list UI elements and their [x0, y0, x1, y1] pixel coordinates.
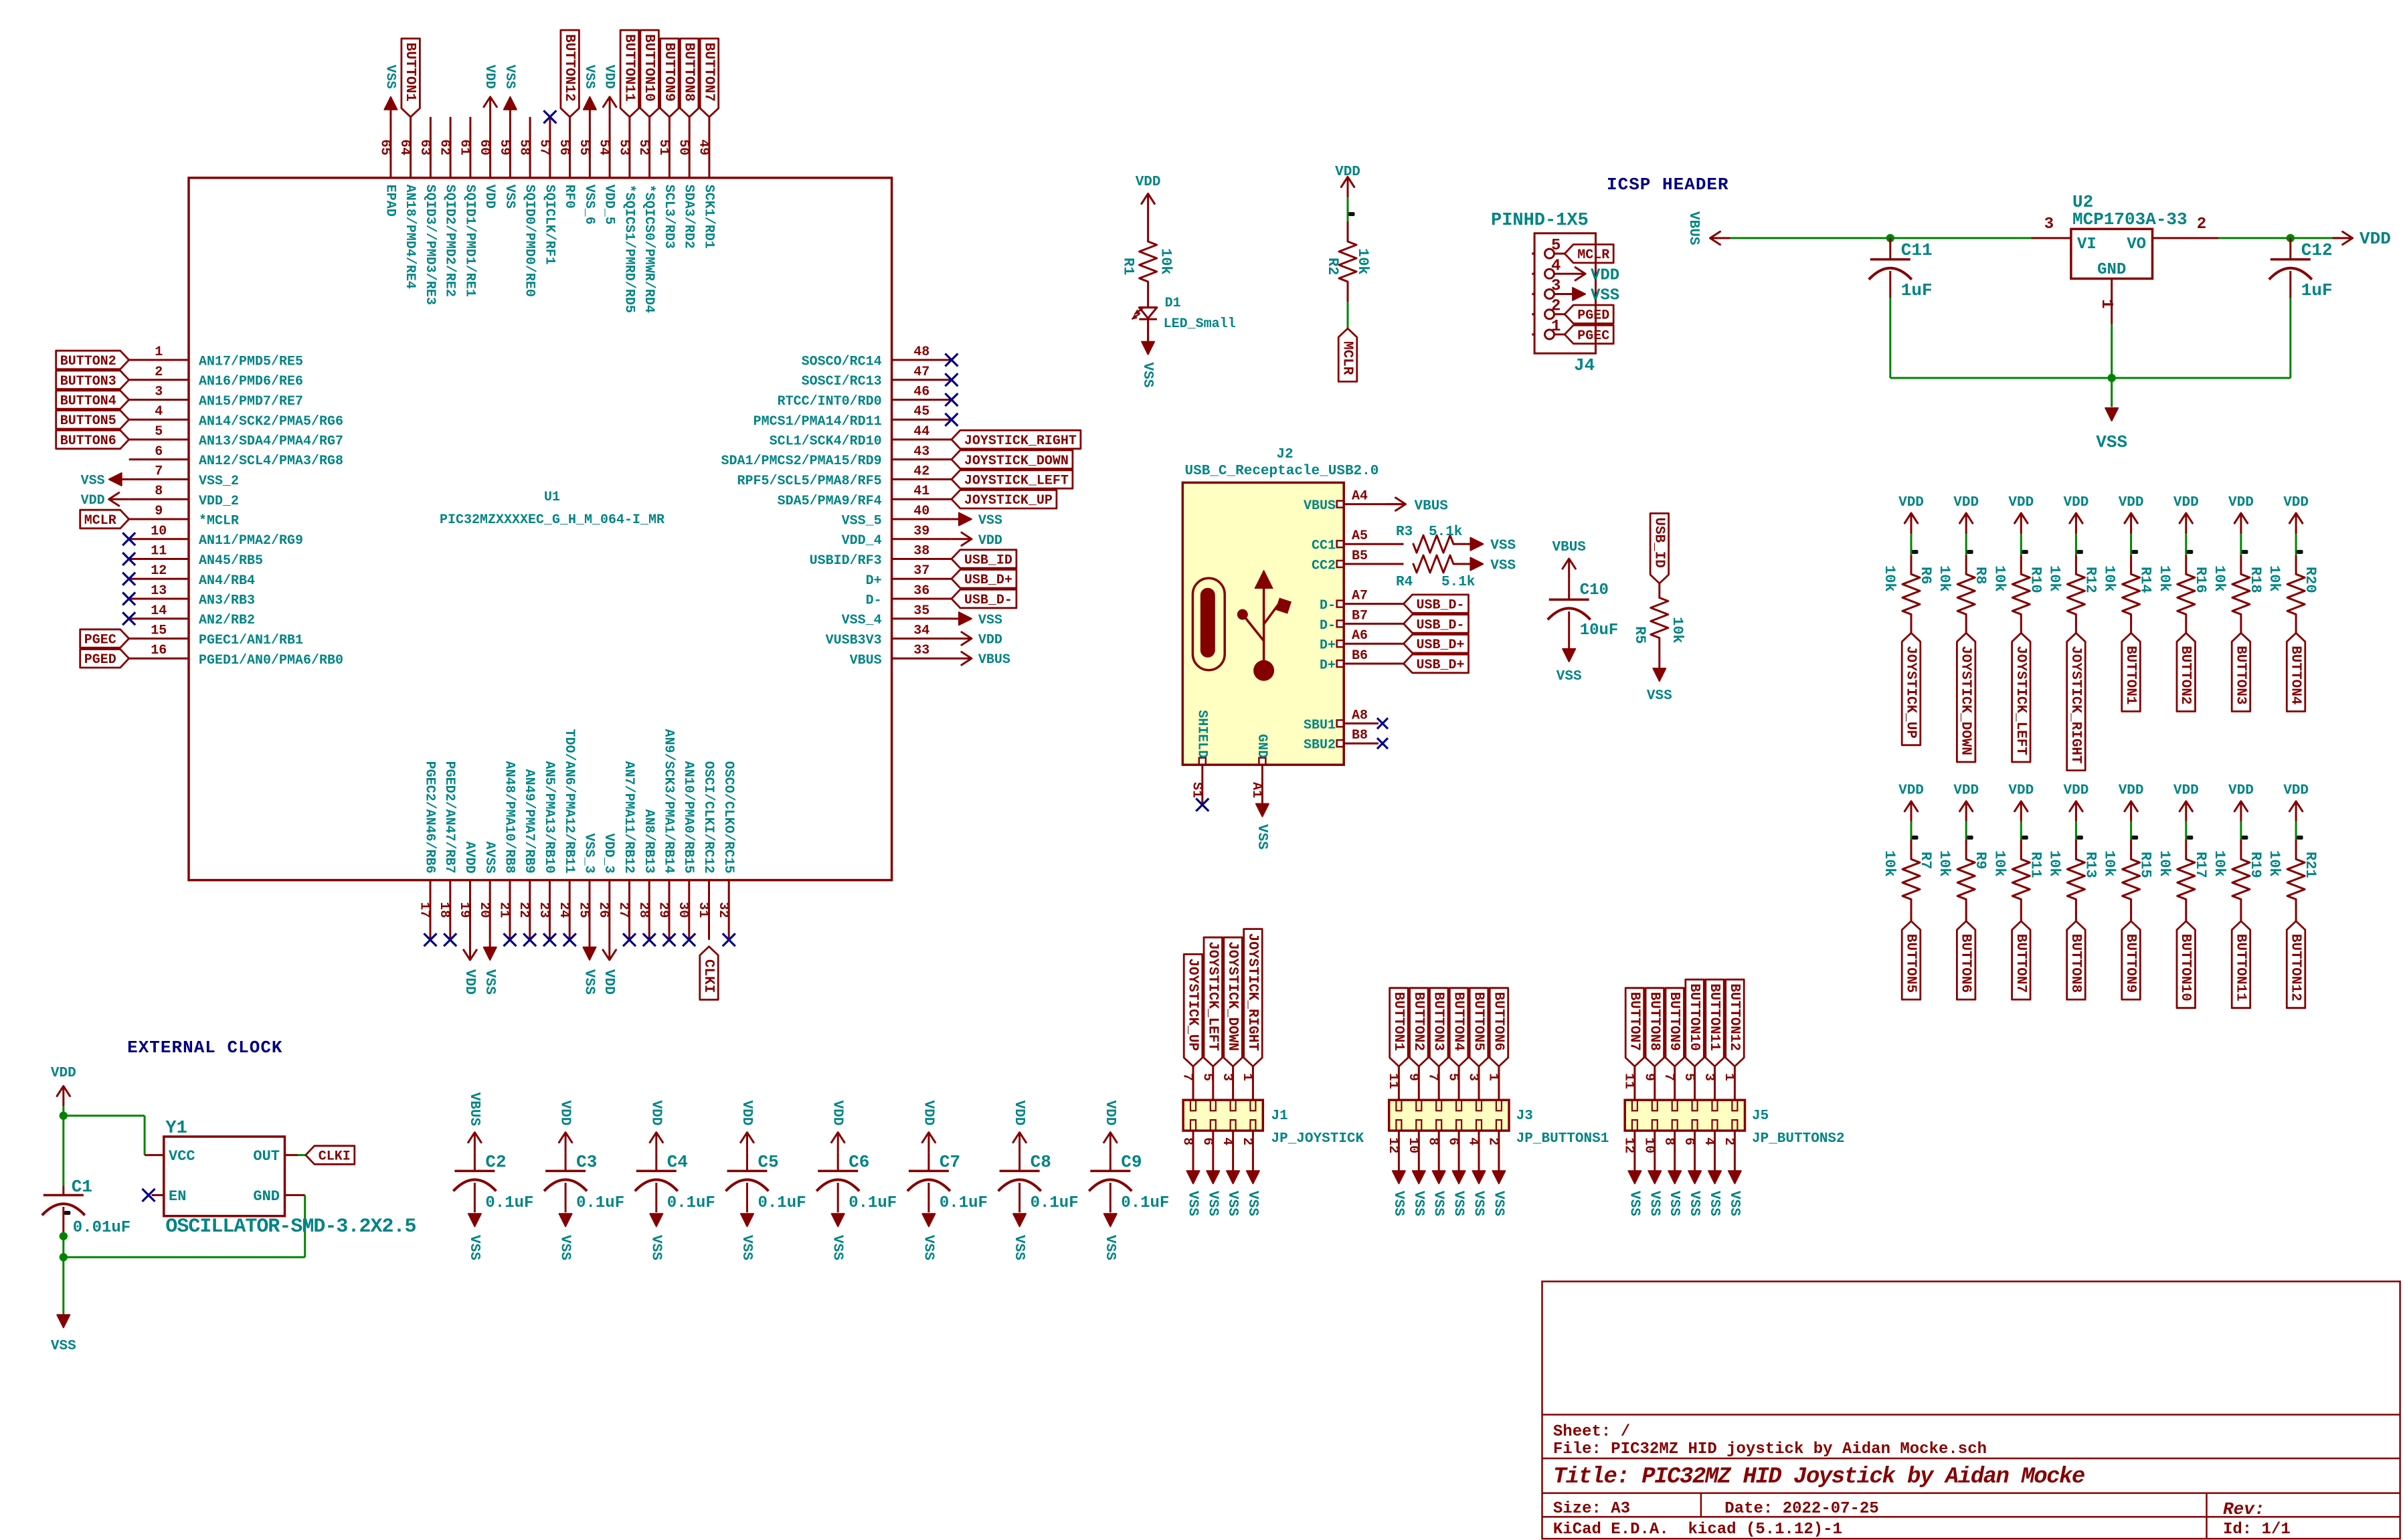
svg-text:VSS: VSS: [978, 513, 1002, 528]
svg-text:VSS: VSS: [1490, 539, 1516, 554]
svg-text:VDD: VDD: [2228, 495, 2254, 510]
svg-text:36: 36: [913, 583, 929, 599]
svg-text:SCL1/SCK4/RD10: SCL1/SCK4/RD10: [770, 434, 882, 450]
svg-text:USB_D+: USB_D+: [964, 573, 1012, 588]
svg-text:JP_JOYSTICK: JP_JOYSTICK: [1271, 1131, 1364, 1147]
svg-text:D-: D-: [866, 593, 882, 609]
svg-text:10k: 10k: [2266, 850, 2283, 877]
svg-text:13: 13: [151, 583, 167, 599]
svg-text:8: 8: [155, 484, 163, 499]
svg-text:PINHD-1X5: PINHD-1X5: [1491, 211, 1589, 231]
svg-text:SQID2/PMD2/RE2: SQID2/PMD2/RE2: [442, 185, 458, 297]
svg-text:USB_D-: USB_D-: [1417, 617, 1465, 633]
svg-text:File: PIC32MZ HID joystick by: File: PIC32MZ HID joystick by Aidan Mock…: [1553, 1440, 1987, 1458]
svg-text:55: 55: [576, 139, 592, 155]
svg-text:22: 22: [516, 902, 531, 918]
svg-text:48: 48: [913, 345, 929, 360]
svg-text:BUTTON5: BUTTON5: [60, 413, 116, 429]
svg-text:VDD: VDD: [1102, 1100, 1118, 1126]
svg-text:BUTTON4: BUTTON4: [1451, 992, 1466, 1051]
svg-text:VSS: VSS: [1102, 1235, 1118, 1260]
svg-text:VDD: VDD: [920, 1100, 936, 1126]
svg-text:BUTTON12: BUTTON12: [561, 34, 577, 102]
svg-text:S1: S1: [1188, 782, 1204, 798]
svg-text:VSS: VSS: [1646, 1191, 1662, 1216]
svg-text:USB_D+: USB_D+: [1417, 658, 1465, 673]
svg-text:8: 8: [1425, 1137, 1441, 1145]
svg-text:35: 35: [913, 603, 929, 619]
svg-text:VDD: VDD: [2008, 495, 2034, 510]
svg-text:D1: D1: [1165, 296, 1181, 311]
svg-text:56: 56: [556, 139, 571, 155]
svg-text:BUTTON4: BUTTON4: [2288, 646, 2303, 704]
svg-text:0.1uF: 0.1uF: [667, 1194, 715, 1212]
svg-text:46: 46: [913, 385, 929, 400]
svg-text:2: 2: [1721, 1137, 1737, 1145]
svg-text:C8: C8: [1031, 1152, 1051, 1172]
svg-text:VDD: VDD: [1011, 1100, 1027, 1126]
svg-text:BUTTON8: BUTTON8: [681, 43, 697, 102]
svg-text:SOSCO/RC14: SOSCO/RC14: [802, 355, 882, 370]
svg-text:0.1uF: 0.1uF: [940, 1194, 988, 1212]
svg-text:GND: GND: [2097, 261, 2126, 279]
svg-text:0.1uF: 0.1uF: [1121, 1194, 1169, 1212]
svg-text:SBU1: SBU1: [1304, 718, 1336, 733]
svg-text:37: 37: [913, 563, 929, 579]
svg-text:10k: 10k: [2156, 565, 2173, 592]
svg-text:Title: PIC32MZ HID Joystick by: Title: PIC32MZ HID Joystick by Aidan Moc…: [1553, 1464, 2084, 1490]
svg-text:R5: R5: [1631, 626, 1648, 644]
svg-text:AN48/PMA10/RB8: AN48/PMA10/RB8: [502, 761, 517, 874]
svg-text:VDD: VDD: [2173, 495, 2199, 510]
svg-text:D-: D-: [1320, 618, 1336, 634]
svg-text:BUTTON11: BUTTON11: [2232, 934, 2248, 1001]
svg-text:VDD_2: VDD_2: [199, 494, 239, 509]
svg-text:9: 9: [1641, 1073, 1656, 1081]
svg-text:0.1uF: 0.1uF: [758, 1194, 806, 1212]
svg-text:C6: C6: [849, 1152, 869, 1172]
svg-text:AN12/SCL4/PMA3/RG8: AN12/SCL4/PMA3/RG8: [199, 454, 343, 469]
svg-text:R9: R9: [1972, 852, 1989, 869]
svg-text:VDD: VDD: [2283, 495, 2309, 510]
svg-text:BUTTON1: BUTTON1: [1391, 992, 1406, 1051]
svg-text:VSS: VSS: [1490, 1191, 1506, 1216]
svg-text:USB_D-: USB_D-: [964, 593, 1012, 608]
svg-text:20: 20: [476, 902, 492, 918]
svg-text:23: 23: [536, 902, 551, 918]
svg-text:AN17/PMD5/RE5: AN17/PMD5/RE5: [199, 355, 303, 370]
svg-text:R1: R1: [1120, 258, 1137, 275]
svg-text:VSS: VSS: [482, 969, 497, 995]
svg-text:VSS: VSS: [978, 613, 1002, 628]
svg-text:10k: 10k: [2211, 565, 2228, 592]
svg-text:VI: VI: [2077, 235, 2097, 254]
svg-text:VSS: VSS: [1451, 1191, 1466, 1216]
svg-text:0.1uF: 0.1uF: [485, 1194, 533, 1212]
svg-text:VSS: VSS: [648, 1235, 663, 1260]
svg-text:61: 61: [456, 139, 472, 155]
svg-text:B6: B6: [1352, 648, 1368, 664]
svg-text:R16: R16: [2192, 567, 2209, 593]
svg-text:J4: J4: [1574, 355, 1595, 375]
svg-text:VBUS: VBUS: [1304, 498, 1336, 514]
svg-text:AN16/PMD6/RE6: AN16/PMD6/RE6: [199, 374, 303, 389]
svg-text:SOSCI/RC13: SOSCI/RC13: [802, 374, 882, 389]
svg-text:PMCS1/PMA14/RD11: PMCS1/PMA14/RD11: [753, 414, 882, 429]
svg-text:D+: D+: [866, 573, 882, 589]
svg-text:9: 9: [155, 504, 163, 519]
svg-text:SQID3//PMD3/RE3: SQID3//PMD3/RE3: [422, 185, 438, 305]
svg-text:10k: 10k: [2156, 850, 2173, 877]
svg-text:C5: C5: [758, 1152, 779, 1172]
svg-text:VDD_4: VDD_4: [842, 533, 882, 549]
svg-text:R15: R15: [2137, 852, 2154, 878]
svg-text:24: 24: [556, 902, 571, 918]
svg-text:VSS: VSS: [582, 969, 597, 995]
svg-text:4: 4: [1465, 1137, 1481, 1145]
svg-text:VSS: VSS: [1686, 1191, 1702, 1216]
svg-text:TDO/AN6/PMA12/RB11: TDO/AN6/PMA12/RB11: [561, 729, 577, 874]
svg-text:C12: C12: [2301, 240, 2333, 260]
svg-text:10k: 10k: [1158, 248, 1174, 275]
svg-text:VBUS: VBUS: [978, 652, 1010, 668]
svg-text:*SQICS1/PMRD/RD5: *SQICS1/PMRD/RD5: [621, 185, 636, 313]
svg-text:0.01uF: 0.01uF: [73, 1219, 130, 1237]
svg-text:BUTTON11: BUTTON11: [621, 34, 636, 102]
svg-text:BUTTON6: BUTTON6: [60, 434, 116, 449]
svg-text:VUSB3V3: VUSB3V3: [826, 633, 882, 648]
svg-text:JOYSTICK_RIGHT: JOYSTICK_RIGHT: [2068, 646, 2083, 763]
svg-text:LED_Small: LED_Small: [1164, 316, 1236, 332]
svg-text:AN5/PMA13/RB10: AN5/PMA13/RB10: [541, 761, 557, 874]
svg-text:AN13/SDA4/PMA4/RG7: AN13/SDA4/PMA4/RG7: [199, 434, 343, 450]
svg-text:C4: C4: [667, 1152, 688, 1172]
svg-text:JOYSTICK_UP: JOYSTICK_UP: [1903, 646, 1919, 739]
svg-text:C3: C3: [576, 1152, 597, 1172]
svg-text:ICSP HEADER: ICSP HEADER: [1607, 175, 1729, 195]
svg-text:VDD: VDD: [1898, 783, 1924, 799]
svg-text:10k: 10k: [2266, 565, 2283, 592]
svg-text:10: 10: [1405, 1137, 1421, 1153]
svg-text:10: 10: [1641, 1137, 1656, 1153]
svg-text:BUTTON11: BUTTON11: [1706, 983, 1722, 1051]
svg-text:12: 12: [1621, 1137, 1636, 1153]
svg-text:JOYSTICK_RIGHT: JOYSTICK_RIGHT: [964, 434, 1077, 449]
svg-text:MCLR: MCLR: [1577, 248, 1609, 263]
svg-text:PGEC1/AN1/RB1: PGEC1/AN1/RB1: [199, 633, 303, 648]
svg-text:Sheet: /: Sheet: /: [1553, 1423, 1630, 1441]
svg-text:VDD: VDD: [2360, 229, 2391, 249]
svg-text:10k: 10k: [2101, 565, 2118, 592]
svg-text:32: 32: [715, 902, 731, 918]
svg-text:VDD: VDD: [830, 1100, 845, 1126]
svg-text:3: 3: [1551, 278, 1561, 296]
svg-text:10k: 10k: [2101, 850, 2118, 877]
svg-text:D-: D-: [1320, 598, 1336, 613]
svg-text:AVDD: AVDD: [462, 842, 477, 874]
svg-text:MCLR: MCLR: [84, 513, 116, 528]
svg-text:5: 5: [155, 424, 163, 440]
svg-text:SQID1/PMD1/RE1: SQID1/PMD1/RE1: [462, 185, 477, 297]
svg-text:4: 4: [1701, 1137, 1716, 1145]
svg-text:MCLR: MCLR: [1340, 341, 1355, 375]
svg-text:47: 47: [913, 365, 929, 380]
svg-text:BUTTON6: BUTTON6: [1958, 934, 1973, 993]
svg-text:VSS: VSS: [1556, 669, 1582, 684]
svg-text:EXTERNAL CLOCK: EXTERNAL CLOCK: [127, 1038, 282, 1058]
svg-text:VDD: VDD: [602, 65, 617, 89]
svg-text:AN18/PMD4/RE4: AN18/PMD4/RE4: [402, 185, 418, 289]
svg-text:5: 5: [1199, 1073, 1215, 1081]
svg-text:EN: EN: [169, 1188, 186, 1205]
svg-text:10k: 10k: [1936, 850, 1953, 877]
svg-text:OSCO/CLKO/RC15: OSCO/CLKO/RC15: [721, 761, 736, 874]
svg-text:4: 4: [1551, 257, 1561, 275]
svg-text:R18: R18: [2247, 567, 2264, 593]
svg-text:R13: R13: [2082, 852, 2099, 878]
svg-text:OSCI/CLKI/RC12: OSCI/CLKI/RC12: [701, 761, 716, 874]
svg-text:SQICLK/RF1: SQICLK/RF1: [541, 185, 557, 265]
svg-text:BUTTON7: BUTTON7: [2013, 934, 2028, 993]
svg-text:BUTTON2: BUTTON2: [60, 354, 116, 369]
svg-text:BUTTON4: BUTTON4: [60, 394, 116, 409]
svg-text:VSS: VSS: [1647, 688, 1672, 704]
svg-text:7: 7: [1661, 1073, 1676, 1081]
svg-text:VSS: VSS: [382, 65, 397, 89]
svg-text:SCL3/RD3: SCL3/RD3: [661, 185, 677, 249]
svg-text:VSS_4: VSS_4: [842, 613, 882, 628]
svg-text:VSS: VSS: [1411, 1191, 1426, 1216]
svg-text:SDA1/PMCS2/PMA15/RD9: SDA1/PMCS2/PMA15/RD9: [721, 454, 882, 469]
svg-text:BUTTON10: BUTTON10: [1686, 983, 1702, 1051]
svg-text:BUTTON7: BUTTON7: [1626, 992, 1641, 1051]
svg-text:AN49/PMA7/RB9: AN49/PMA7/RB9: [521, 769, 537, 874]
svg-text:VSS: VSS: [1591, 287, 1619, 305]
svg-text:JOYSTICK_DOWN: JOYSTICK_DOWN: [964, 454, 1069, 469]
svg-text:10k: 10k: [2046, 565, 2062, 592]
svg-text:VSS: VSS: [81, 474, 105, 489]
svg-text:3: 3: [1219, 1073, 1235, 1081]
svg-text:R10: R10: [2027, 567, 2044, 593]
svg-text:2: 2: [155, 365, 163, 380]
svg-text:VDD_5: VDD_5: [602, 185, 617, 225]
svg-text:10uF: 10uF: [1580, 621, 1619, 640]
svg-text:Y1: Y1: [165, 1119, 187, 1139]
svg-text:BUTTON12: BUTTON12: [2288, 934, 2303, 1001]
svg-text:CLKI: CLKI: [319, 1149, 351, 1165]
svg-text:VSS: VSS: [2096, 432, 2127, 452]
svg-text:R17: R17: [2192, 852, 2209, 878]
svg-text:VBUS: VBUS: [1686, 211, 1701, 245]
svg-text:VSS_3: VSS_3: [582, 834, 597, 874]
svg-text:1uF: 1uF: [1901, 280, 1933, 300]
svg-text:VDD: VDD: [2063, 783, 2088, 799]
svg-text:VSS: VSS: [1225, 1191, 1240, 1216]
svg-text:JOYSTICK_LEFT: JOYSTICK_LEFT: [1205, 941, 1220, 1051]
svg-text:1: 1: [1485, 1073, 1500, 1081]
svg-text:BUTTON10: BUTTON10: [2177, 934, 2193, 1001]
svg-text:2: 2: [1485, 1137, 1500, 1145]
svg-text:VSS: VSS: [739, 1235, 754, 1260]
svg-text:16: 16: [151, 643, 167, 658]
svg-text:9: 9: [1405, 1073, 1421, 1081]
svg-text:KiCad E.D.A. kicad (5.1.12)-1: KiCad E.D.A. kicad (5.1.12)-1: [1553, 1521, 1842, 1539]
svg-text:SHIELD: SHIELD: [1194, 710, 1209, 758]
svg-text:2: 2: [1551, 298, 1561, 316]
svg-text:R6: R6: [1917, 567, 1934, 584]
svg-text:Id: 1/1: Id: 1/1: [2223, 1521, 2291, 1539]
svg-text:BUTTON8: BUTTON8: [2068, 934, 2083, 993]
svg-text:USB_ID: USB_ID: [964, 553, 1012, 569]
svg-text:VDD: VDD: [1136, 175, 1161, 190]
svg-text:C7: C7: [940, 1152, 960, 1172]
svg-text:11: 11: [151, 544, 167, 559]
svg-text:11: 11: [1621, 1073, 1636, 1089]
svg-text:SQID0/PMD0/RE0: SQID0/PMD0/RE0: [522, 185, 537, 297]
svg-text:RF0: RF0: [561, 185, 577, 209]
svg-text:R3: R3: [1396, 524, 1413, 540]
svg-text:BUTTON1: BUTTON1: [402, 43, 418, 102]
svg-text:VDD: VDD: [81, 493, 105, 508]
svg-text:JOYSTICK_DOWN: JOYSTICK_DOWN: [1958, 646, 1973, 755]
svg-text:34: 34: [913, 623, 929, 639]
svg-text:3: 3: [1465, 1073, 1481, 1081]
svg-text:39: 39: [913, 524, 929, 539]
svg-text:VDD: VDD: [51, 1066, 76, 1081]
svg-text:PGEC2/AN46/RB6: PGEC2/AN46/RB6: [422, 761, 438, 874]
svg-text:12: 12: [151, 563, 167, 579]
svg-text:29: 29: [656, 902, 671, 918]
svg-text:BUTTON9: BUTTON9: [661, 43, 677, 102]
svg-text:VSS: VSS: [830, 1235, 845, 1260]
svg-text:8: 8: [1180, 1137, 1195, 1145]
svg-text:AN14/SCK2/PMA5/RG6: AN14/SCK2/PMA5/RG6: [199, 414, 343, 429]
svg-text:PGED: PGED: [84, 652, 116, 668]
svg-text:2: 2: [1239, 1137, 1255, 1145]
svg-text:VSS: VSS: [1626, 1191, 1641, 1216]
svg-text:10k: 10k: [2211, 850, 2228, 877]
svg-text:0.1uF: 0.1uF: [1031, 1194, 1079, 1212]
svg-text:SBU2: SBU2: [1304, 738, 1336, 753]
svg-text:B5: B5: [1352, 549, 1368, 564]
svg-text:GND: GND: [1254, 734, 1269, 758]
svg-text:AN3/RB3: AN3/RB3: [199, 593, 255, 609]
svg-text:JP_BUTTONS2: JP_BUTTONS2: [1752, 1131, 1845, 1147]
svg-text:BUTTON2: BUTTON2: [1411, 992, 1426, 1051]
svg-text:R19: R19: [2247, 852, 2264, 878]
svg-text:PGEC: PGEC: [84, 633, 116, 648]
svg-text:30: 30: [675, 902, 691, 918]
svg-text:VSS: VSS: [1391, 1191, 1406, 1216]
svg-text:1uF: 1uF: [2301, 280, 2333, 300]
svg-text:*SQICS0/PMWR/RD4: *SQICS0/PMWR/RD4: [641, 185, 656, 313]
svg-text:VSS: VSS: [1490, 559, 1516, 574]
svg-text:1: 1: [1721, 1073, 1737, 1081]
svg-text:VDD_3: VDD_3: [601, 834, 616, 874]
svg-text:Date: 2022-07-25: Date: 2022-07-25: [1724, 1500, 1878, 1518]
svg-text:42: 42: [913, 464, 929, 480]
svg-text:R7: R7: [1917, 852, 1934, 869]
svg-text:BUTTON12: BUTTON12: [1726, 983, 1742, 1051]
svg-text:AN11/PMA2/RG9: AN11/PMA2/RG9: [199, 533, 303, 549]
svg-text:BUTTON9: BUTTON9: [1666, 992, 1682, 1051]
svg-text:45: 45: [913, 404, 929, 419]
svg-text:VDD: VDD: [2173, 783, 2199, 799]
svg-text:R2: R2: [1324, 258, 1341, 275]
svg-text:4: 4: [1219, 1137, 1235, 1145]
svg-text:JOYSTICK_LEFT: JOYSTICK_LEFT: [2013, 646, 2028, 755]
svg-text:VDD: VDD: [601, 969, 616, 995]
svg-text:6: 6: [1681, 1137, 1696, 1145]
svg-text:EPAD: EPAD: [382, 185, 397, 217]
svg-text:0.1uF: 0.1uF: [849, 1194, 897, 1212]
svg-text:5: 5: [1681, 1073, 1696, 1081]
svg-text:26: 26: [596, 902, 611, 918]
svg-text:A7: A7: [1352, 589, 1368, 604]
svg-text:C9: C9: [1121, 1152, 1142, 1172]
svg-text:R14: R14: [2137, 567, 2154, 593]
svg-text:A8: A8: [1352, 708, 1368, 723]
svg-text:VSS: VSS: [1254, 824, 1269, 850]
svg-text:VSS: VSS: [920, 1235, 936, 1260]
svg-text:RTCC/INT0/RD0: RTCC/INT0/RD0: [778, 394, 882, 409]
svg-text:JOYSTICK_LEFT: JOYSTICK_LEFT: [964, 474, 1069, 489]
svg-text:VSS: VSS: [1471, 1191, 1486, 1216]
svg-text:USBID/RF3: USBID/RF3: [810, 553, 882, 569]
svg-text:VDD: VDD: [1953, 495, 1979, 510]
svg-text:41: 41: [913, 484, 929, 499]
svg-text:VDD: VDD: [1591, 266, 1619, 284]
svg-text:8: 8: [1661, 1137, 1676, 1145]
svg-text:C2: C2: [485, 1152, 506, 1172]
svg-text:7: 7: [1425, 1073, 1441, 1081]
svg-text:R20: R20: [2302, 567, 2319, 593]
svg-text:27: 27: [616, 902, 631, 918]
svg-text:40: 40: [913, 504, 929, 519]
svg-text:18: 18: [436, 902, 452, 918]
svg-text:VDD: VDD: [482, 185, 497, 209]
svg-text:R12: R12: [2082, 567, 2099, 593]
svg-text:VDD: VDD: [2228, 783, 2254, 799]
svg-text:R8: R8: [1972, 567, 1989, 584]
svg-text:VBUS: VBUS: [1552, 540, 1585, 555]
svg-text:VSS_6: VSS_6: [582, 185, 597, 225]
svg-text:VDD: VDD: [978, 533, 1002, 549]
svg-text:10k: 10k: [1936, 565, 1953, 592]
svg-text:3: 3: [155, 385, 163, 400]
svg-text:PGED1/AN0/PMA6/RB0: PGED1/AN0/PMA6/RB0: [199, 653, 343, 668]
svg-text:VBUS: VBUS: [466, 1092, 482, 1126]
svg-text:5.1k: 5.1k: [1441, 575, 1475, 590]
svg-text:11: 11: [1385, 1073, 1401, 1089]
svg-text:AN45/RB5: AN45/RB5: [199, 553, 263, 569]
svg-text:J5: J5: [1752, 1109, 1769, 1124]
svg-text:17: 17: [417, 902, 432, 918]
svg-text:BUTTON1: BUTTON1: [2123, 646, 2138, 704]
svg-text:JOYSTICK_UP: JOYSTICK_UP: [964, 493, 1053, 508]
svg-text:VSS: VSS: [466, 1235, 482, 1260]
svg-text:VSS: VSS: [1245, 1191, 1260, 1216]
svg-text:AN7/PMA11/RB12: AN7/PMA11/RB12: [621, 761, 636, 874]
svg-text:VBUS: VBUS: [1415, 499, 1448, 514]
svg-text:U1: U1: [544, 490, 560, 505]
svg-text:VSS: VSS: [1185, 1191, 1200, 1216]
svg-text:B7: B7: [1352, 608, 1368, 623]
svg-text:VSS: VSS: [51, 1339, 76, 1354]
svg-text:58: 58: [517, 139, 532, 155]
svg-text:6: 6: [1199, 1137, 1215, 1145]
svg-text:CC1: CC1: [1312, 539, 1336, 554]
